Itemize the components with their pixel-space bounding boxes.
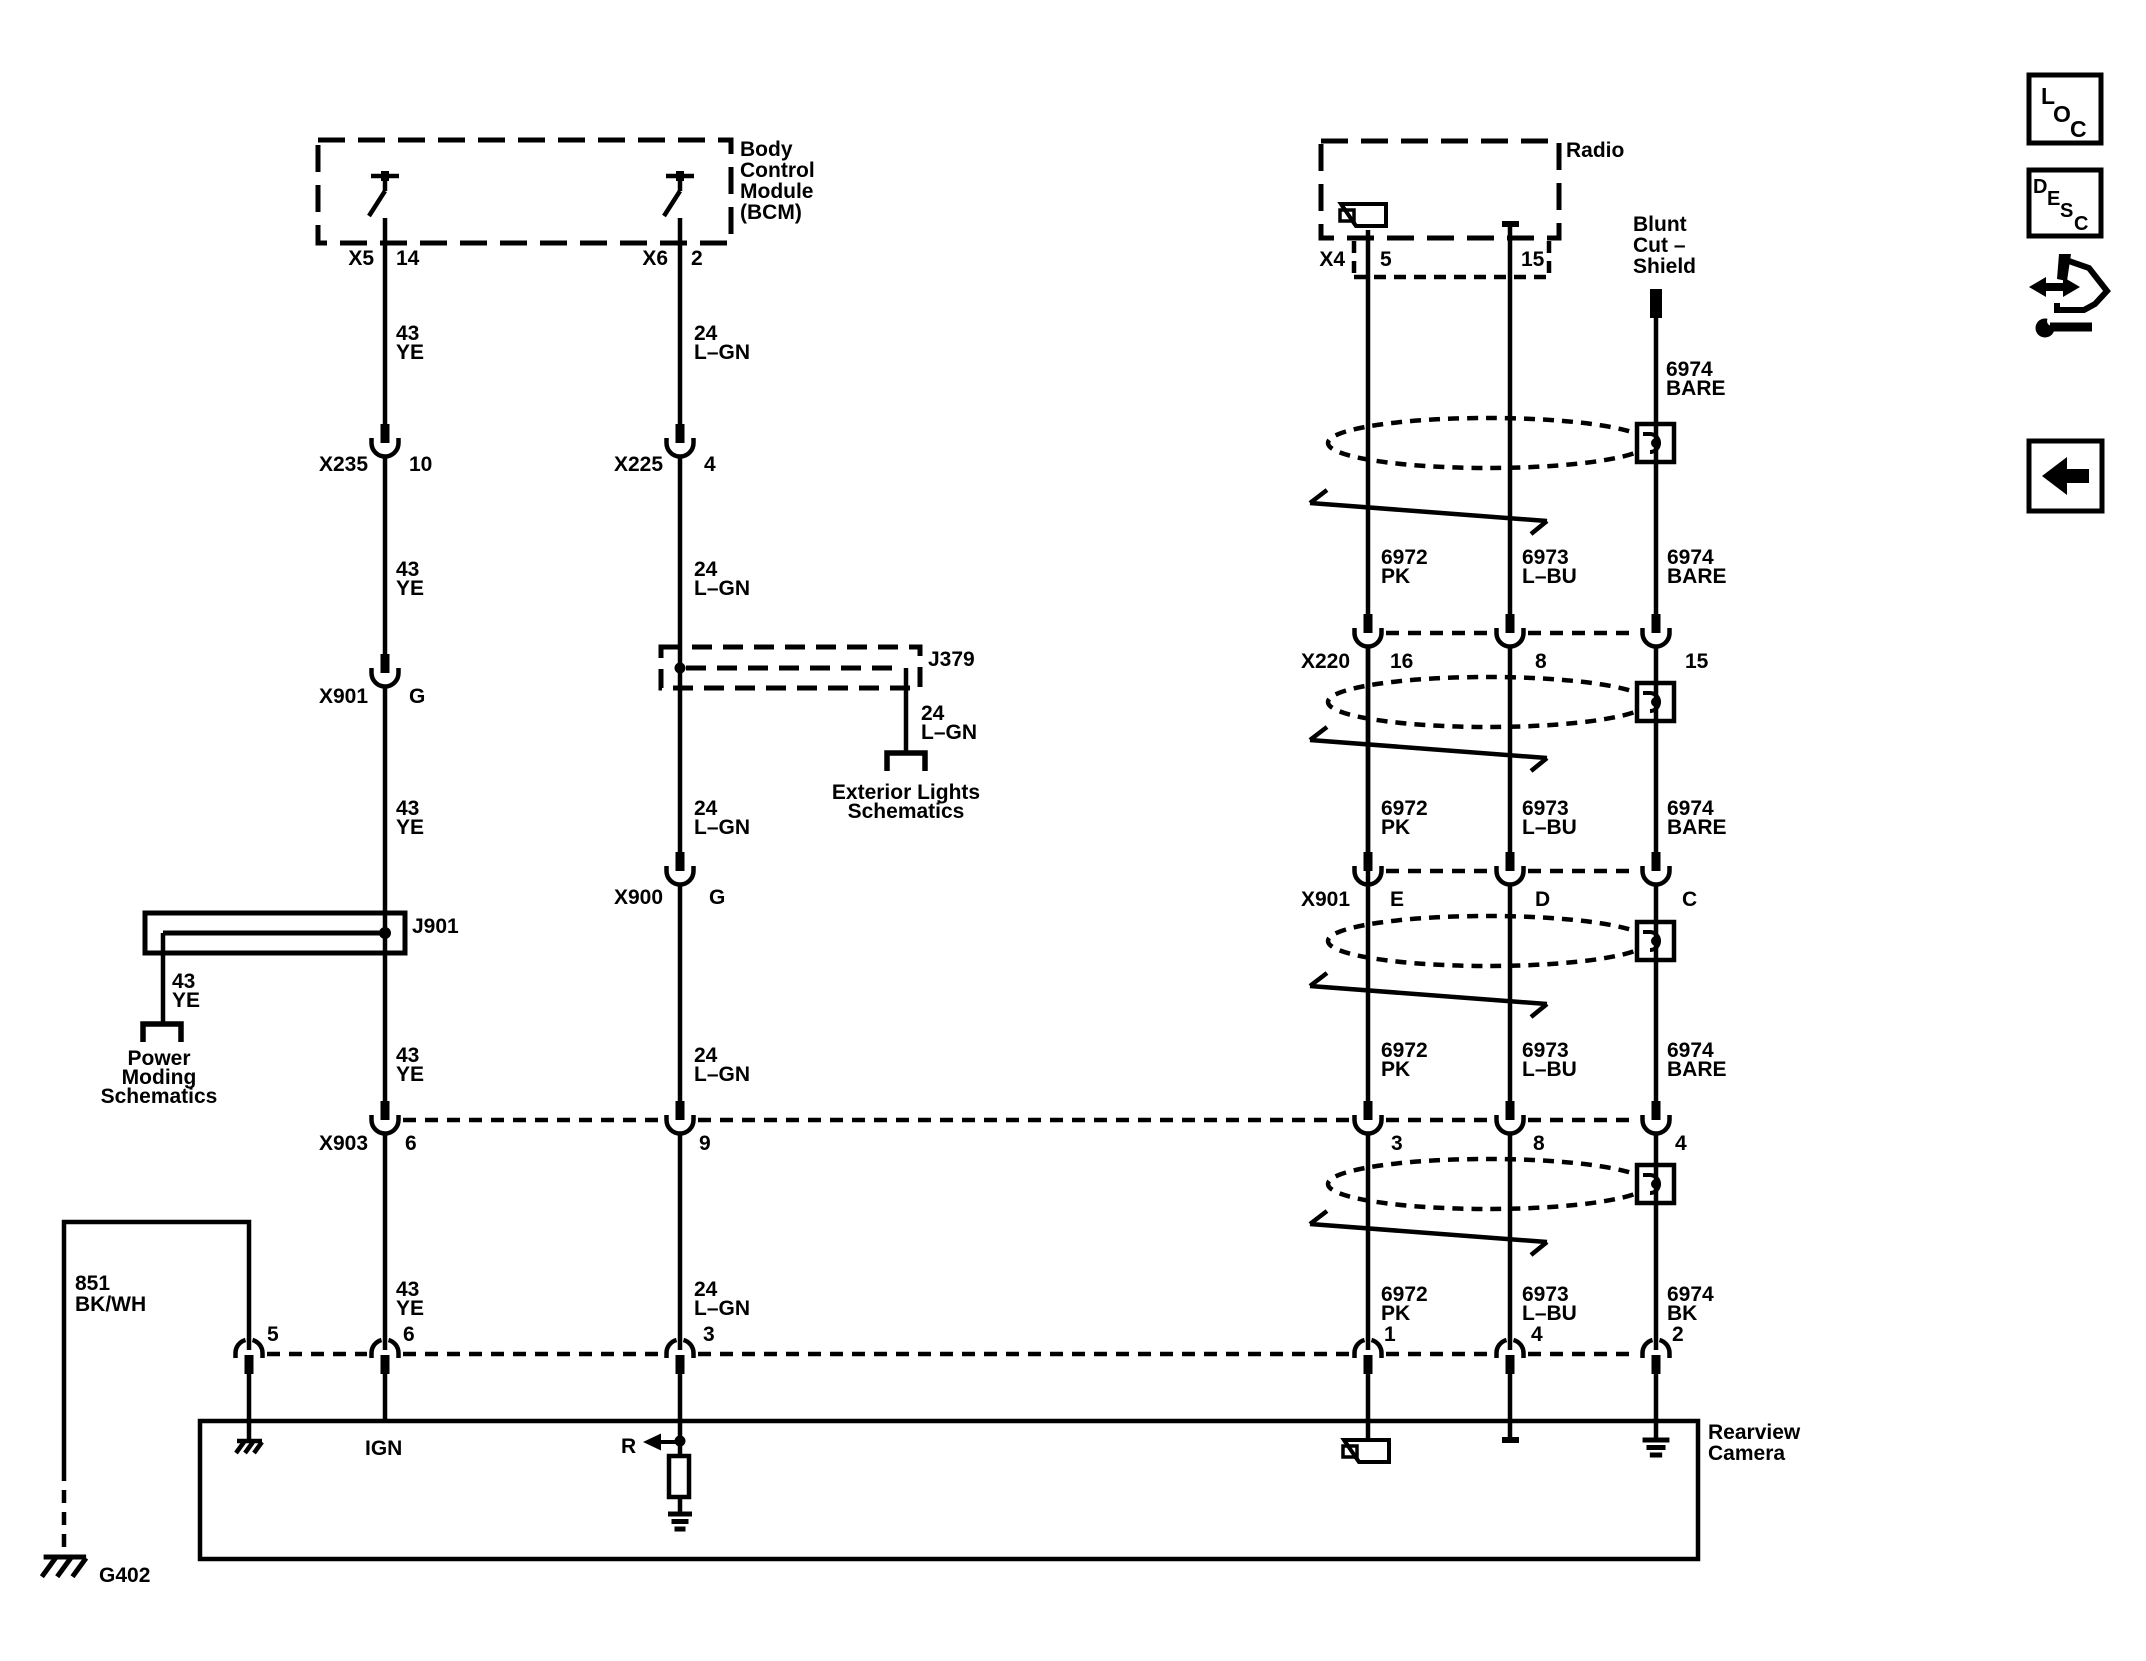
svg-text:G: G [709,886,725,909]
svg-text:(BCM): (BCM) [740,201,802,224]
svg-text:L–BU: L–BU [1522,1058,1577,1081]
svg-text:PK: PK [1381,1058,1410,1081]
svg-text:3: 3 [1391,1132,1403,1155]
svg-text:15: 15 [1521,248,1545,271]
svg-text:16: 16 [1390,650,1413,673]
svg-text:Camera: Camera [1708,1442,1785,1465]
svg-text:X220: X220 [1301,650,1350,673]
svg-text:2: 2 [1672,1323,1684,1346]
svg-text:3: 3 [703,1323,715,1346]
svg-text:O: O [2053,101,2071,127]
svg-text:Blunt: Blunt [1633,213,1687,236]
svg-text:BARE: BARE [1666,377,1726,400]
svg-text:Radio: Radio [1566,139,1624,162]
svg-text:C: C [1682,888,1697,911]
svg-text:X903: X903 [319,1132,368,1155]
svg-text:PK: PK [1381,565,1410,588]
svg-text:L–GN: L–GN [694,577,750,600]
svg-text:6: 6 [405,1132,417,1155]
svg-text:Cut –: Cut – [1633,234,1686,257]
svg-text:C: C [2070,116,2087,142]
svg-text:L–GN: L–GN [694,1063,750,1086]
svg-text:D: D [1535,888,1550,911]
svg-text:J901: J901 [412,915,459,938]
svg-text:10: 10 [409,453,432,476]
svg-text:15: 15 [1685,650,1709,673]
svg-text:X901: X901 [319,685,368,708]
svg-text:2: 2 [691,247,703,270]
svg-text:5: 5 [267,1323,279,1346]
svg-text:BARE: BARE [1667,816,1727,839]
svg-text:X900: X900 [614,886,663,909]
svg-text:YE: YE [396,1063,424,1086]
svg-text:8: 8 [1535,650,1547,673]
svg-text:851: 851 [75,1272,110,1295]
svg-text:YE: YE [396,577,424,600]
svg-text:L–BU: L–BU [1522,816,1577,839]
svg-text:L–BU: L–BU [1522,1302,1577,1325]
svg-text:IGN: IGN [365,1437,402,1460]
svg-text:14: 14 [396,247,420,270]
svg-text:E: E [2047,188,2060,210]
svg-text:8: 8 [1533,1132,1545,1155]
svg-text:BK/WH: BK/WH [75,1293,146,1316]
svg-text:E: E [1390,888,1404,911]
svg-text:L–GN: L–GN [694,1297,750,1320]
svg-text:PK: PK [1381,816,1410,839]
svg-text:Shield: Shield [1633,255,1696,278]
svg-text:YE: YE [172,989,200,1012]
svg-text:YE: YE [396,1297,424,1320]
svg-text:Control: Control [740,159,815,182]
svg-text:YE: YE [396,816,424,839]
svg-text:Module: Module [740,180,814,203]
svg-text:L–GN: L–GN [694,816,750,839]
svg-text:5: 5 [1380,248,1392,271]
svg-text:C: C [2074,213,2088,235]
svg-text:G402: G402 [99,1564,150,1587]
svg-text:X5: X5 [348,247,374,270]
svg-text:X235: X235 [319,453,368,476]
svg-text:BARE: BARE [1667,565,1727,588]
svg-text:X4: X4 [1319,248,1345,271]
svg-text:4: 4 [1675,1132,1687,1155]
svg-text:YE: YE [396,341,424,364]
svg-text:Schematics: Schematics [848,800,965,823]
svg-text:PK: PK [1381,1302,1410,1325]
svg-text:4: 4 [704,453,716,476]
svg-text:6: 6 [403,1323,415,1346]
svg-text:BARE: BARE [1667,1058,1727,1081]
svg-text:Body: Body [740,138,793,161]
svg-text:J379: J379 [928,648,975,671]
svg-text:X225: X225 [614,453,663,476]
svg-text:Rearview: Rearview [1708,1421,1801,1444]
svg-text:L–BU: L–BU [1522,565,1577,588]
svg-text:BK: BK [1667,1302,1697,1325]
svg-text:R: R [621,1435,636,1458]
svg-text:X6: X6 [642,247,668,270]
svg-text:9: 9 [699,1132,711,1155]
svg-text:X901: X901 [1301,888,1350,911]
svg-text:1: 1 [1384,1323,1396,1346]
svg-text:L–GN: L–GN [694,341,750,364]
svg-text:S: S [2060,200,2073,222]
svg-text:D: D [2033,176,2047,198]
svg-text:4: 4 [1531,1323,1543,1346]
svg-text:G: G [409,685,425,708]
svg-text:Schematics: Schematics [101,1085,218,1108]
svg-text:L–GN: L–GN [921,721,977,744]
